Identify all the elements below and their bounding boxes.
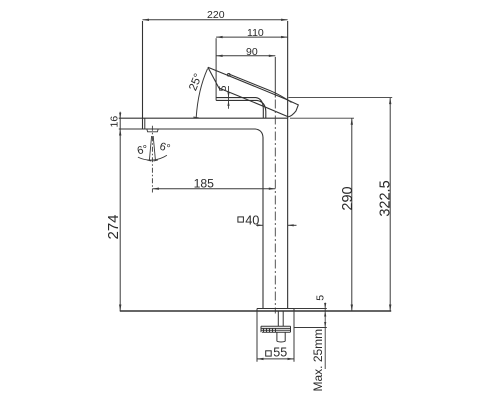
svg-text:40: 40 xyxy=(245,212,259,227)
svg-text:Max. 25mm: Max. 25mm xyxy=(311,329,325,392)
svg-text:55: 55 xyxy=(273,345,287,359)
svg-text:110: 110 xyxy=(247,27,264,39)
svg-text:5: 5 xyxy=(217,85,229,91)
svg-text:6°: 6° xyxy=(136,143,149,157)
svg-text:274: 274 xyxy=(105,214,122,239)
svg-text:220: 220 xyxy=(207,9,225,21)
svg-text:6°: 6° xyxy=(158,141,171,155)
svg-text:90: 90 xyxy=(246,46,258,58)
svg-text:322.5: 322.5 xyxy=(378,180,394,216)
svg-text:25°: 25° xyxy=(187,72,205,93)
svg-text:5: 5 xyxy=(315,295,327,301)
svg-text:185: 185 xyxy=(194,176,215,190)
svg-text:290: 290 xyxy=(340,186,356,210)
svg-text:16: 16 xyxy=(109,116,121,128)
